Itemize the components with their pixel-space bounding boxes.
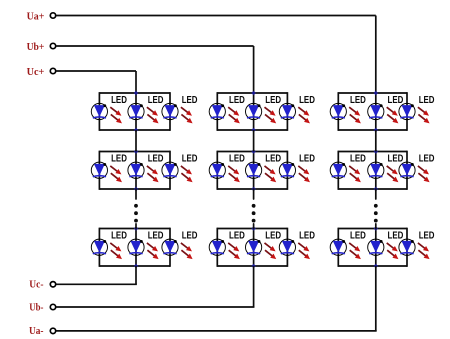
junction node at (136.0,93.0) [134,91,139,96]
LED D21b [246,103,262,119]
junction node at (136.0,130.0) [134,128,139,133]
svg-text:LED: LED [182,95,198,106]
LED D12b [128,162,144,178]
light arrows of LED D31b [387,107,399,123]
svg-text:LED: LED [419,95,435,106]
junction node at (253.6,266.0) [251,264,256,269]
svg-text:Uc-: Uc- [29,278,43,290]
LED D22b [246,162,262,178]
terminal Ua- [50,328,55,333]
svg-text:LED: LED [182,231,198,242]
svg-text:LED: LED [350,231,366,242]
svg-text:LED: LED [299,154,315,165]
light arrows of LED D23c [298,243,310,259]
LED group G33: rails [338,228,407,267]
light arrows of LED D12c [181,166,193,182]
junction node at (253.6,228.5) [251,226,256,231]
svg-text:LED: LED [148,231,164,242]
terminal Uc- [50,282,55,287]
light arrows of LED D21b [265,107,277,123]
svg-text:LED: LED [229,95,245,106]
svg-text:LED: LED [182,154,198,165]
junction node at (375.8,151.5) [374,149,379,154]
wire column 1 link row1-row2 [135,130,137,152]
wire Uc+ drop to column 1 [135,71,137,93]
LED D32c [399,162,415,178]
LED D31c [399,103,415,119]
junction node at (136.0,189.0) [134,187,139,192]
LED D13c [162,239,178,255]
LED group G12: rails [99,151,170,190]
junction node at (375.8,228.5) [374,226,379,231]
light arrows of LED D33b [387,243,399,259]
LED group G22: rails [217,151,287,190]
light arrows of LED D33c [418,243,430,259]
LED D21a [209,103,225,119]
svg-text:LED: LED [148,154,164,165]
LED D32a [330,162,346,178]
svg-text:LED: LED [419,154,435,165]
LED group G32: rails [338,151,407,190]
junction node at (375.8,266.0) [374,264,379,269]
light arrows of LED D23a [228,243,240,259]
wire Ub+ horizontal feed [56,45,253,47]
LED D12c [162,162,178,178]
light arrows of LED D21c [298,107,310,123]
wire Uc- horizontal return [56,283,137,285]
LED D13a [91,239,107,255]
wire column 3 drop to Ua- rail [375,266,377,331]
light arrows of LED D12b [147,166,159,182]
wire column 2 drop to Ub- rail [253,266,255,307]
wire Ua- horizontal return [56,330,376,332]
column 3 continuation stub below row 2 [375,189,377,199]
light arrows of LED D21a [228,107,240,123]
junction node at (375.8,189.0) [374,187,379,192]
wire Uc+ horizontal feed [56,70,136,72]
light arrows of LED D32b [387,166,399,182]
svg-text:LED: LED [111,95,127,106]
junction node at (375.8,130.0) [374,128,379,133]
terminal Uc+ [50,68,55,73]
LED D11a [91,103,107,119]
wire column 3 link row1-row2 [375,130,377,152]
svg-text:LED: LED [388,231,404,242]
light arrows of LED D13a [110,243,122,259]
svg-text:LED: LED [111,231,127,242]
column 1 ellipsis dots [134,204,138,223]
light arrows of LED D13b [147,243,159,259]
junction node at (136.0,151.5) [134,149,139,154]
LED group G21: rails [217,92,287,131]
LED D33b [368,239,384,255]
svg-text:Uc+: Uc+ [27,66,45,78]
terminal Ub+ [50,43,55,48]
svg-text:LED: LED [265,231,281,242]
svg-text:LED: LED [419,231,435,242]
light arrows of LED D13c [181,243,193,259]
LED group G23: rails [217,228,287,267]
LED group G13: rails [99,228,170,267]
terminal Ub- [50,304,55,309]
wire Ua+ drop to column 3 [375,16,377,94]
svg-text:LED: LED [229,154,245,165]
wire column 1 drop to Uc- rail [135,266,137,284]
junction node at (253.6,93.0) [251,91,256,96]
wire Ub+ drop to column 2 [253,46,255,93]
svg-text:Ub-: Ub- [29,302,43,314]
svg-text:LED: LED [388,95,404,106]
wire Ub- horizontal return [56,306,254,308]
LED D11b [128,103,144,119]
wire column 2 link row1-row2 [253,130,255,152]
svg-text:LED: LED [350,95,366,106]
column 1 continuation stub below row 2 [135,189,137,199]
light arrows of LED D31a [349,107,361,123]
LED D33c [399,239,415,255]
light arrows of LED D11b [147,107,159,123]
LED D12a [91,162,107,178]
LED D33a [330,239,346,255]
LED D22c [279,162,295,178]
svg-text:LED: LED [148,95,164,106]
svg-text:LED: LED [299,231,315,242]
svg-text:LED: LED [388,154,404,165]
svg-text:Ua+: Ua+ [27,10,45,22]
svg-text:Ua-: Ua- [29,325,44,337]
LED group G11: rails [99,92,170,131]
light arrows of LED D22b [265,166,277,182]
svg-text:LED: LED [265,95,281,106]
junction node at (136.0,266.0) [134,264,139,269]
light arrows of LED D22c [298,166,310,182]
junction node at (136.0,228.5) [134,226,139,231]
LED group G31: rails [338,92,407,131]
junction node at (253.6,130.0) [251,128,256,133]
svg-text:Ub+: Ub+ [27,41,45,53]
LED D31b [368,103,384,119]
column 2 continuation stub below row 2 [253,189,255,199]
svg-text:LED: LED [350,154,366,165]
svg-text:LED: LED [299,95,315,106]
svg-text:LED: LED [229,231,245,242]
LED D22a [209,162,225,178]
terminal Ua+ [50,13,55,18]
LED D13b [128,239,144,255]
LED D23a [209,239,225,255]
svg-text:LED: LED [111,154,127,165]
LED D23c [279,239,295,255]
LED D32b [368,162,384,178]
LED D23b [246,239,262,255]
LED D11c [162,103,178,119]
LED D21c [279,103,295,119]
junction node at (253.6,151.5) [251,149,256,154]
light arrows of LED D32c [418,166,430,182]
light arrows of LED D33a [349,243,361,259]
light arrows of LED D12a [110,166,122,182]
column 2 ellipsis dots [252,204,256,223]
LED D31a [330,103,346,119]
light arrows of LED D23b [265,243,277,259]
junction node at (375.8,93.0) [374,91,379,96]
light arrows of LED D11a [110,107,122,123]
light arrows of LED D32a [349,166,361,182]
junction node at (253.6,189.0) [251,187,256,192]
light arrows of LED D11c [181,107,193,123]
light arrows of LED D31c [418,107,430,123]
column 3 continuation stub above row 3 [375,224,377,229]
svg-text:LED: LED [265,154,281,165]
column 3 ellipsis dots [374,204,378,223]
wire Ua+ horizontal feed [56,15,376,17]
column 1 continuation stub above row 3 [135,224,137,229]
light arrows of LED D22a [228,166,240,182]
column 2 continuation stub above row 3 [253,224,255,229]
